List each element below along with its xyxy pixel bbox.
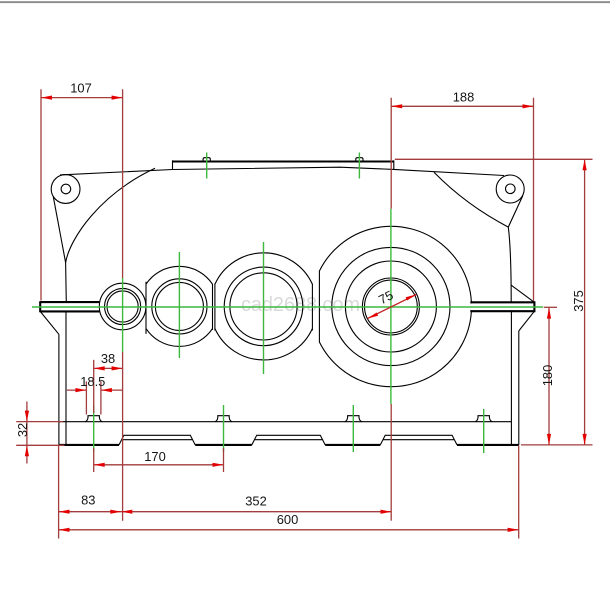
right shaft bar bbox=[470, 301, 534, 312]
dim 188 extension lines bbox=[391, 98, 533, 301]
bore2 outer circle bbox=[152, 279, 207, 334]
right gusset diagonal bbox=[508, 196, 523, 228]
foot recess 3 bbox=[380, 435, 457, 445]
right shaft lower chamfer bbox=[519, 311, 535, 331]
left ear lug circle bbox=[51, 175, 80, 204]
dim 18.5 line bbox=[67, 389, 123, 391]
bore4 vertical centerline bbox=[390, 209, 392, 404]
left wall above shaft bbox=[65, 263, 68, 303]
top boss screw bump right bbox=[356, 158, 363, 162]
dim 18.5 ext lines bbox=[86, 382, 101, 415]
dim 170 line bbox=[94, 464, 224, 466]
bolt boss pad 2 bbox=[215, 416, 232, 422]
svg-text:83: 83 bbox=[81, 493, 95, 508]
arrows 38 bbox=[94, 366, 105, 370]
foot recess 1 bbox=[119, 435, 195, 445]
bore1-bore2 tangent flat bbox=[145, 282, 147, 334]
arrows 18.5 bbox=[75, 388, 86, 392]
bolt boss pad 3 bbox=[345, 416, 362, 422]
right wall below shaft bbox=[510, 309, 512, 445]
bore4 outer circle bbox=[332, 247, 450, 365]
boss1 centerline bbox=[93, 405, 95, 452]
boss4 centerline bbox=[483, 409, 485, 453]
arrows 375 bbox=[583, 159, 587, 170]
bore3 boss right flat bbox=[311, 284, 313, 331]
svg-text:188: 188 bbox=[453, 90, 475, 105]
dim 375 line bbox=[584, 159, 586, 445]
arrows 32 bbox=[25, 411, 29, 422]
bore4 bore inner bbox=[365, 280, 418, 333]
base top line bbox=[59, 421, 512, 423]
svg-text:107: 107 bbox=[70, 81, 92, 96]
right wall above shaft bbox=[508, 227, 511, 302]
dim 352 right ext lower bbox=[390, 404, 392, 521]
dim 32 ext lines bbox=[16, 422, 64, 446]
arrows 107 bbox=[41, 96, 52, 100]
top boss right step bbox=[393, 160, 395, 169]
left ear hole bbox=[61, 184, 71, 194]
svg-text:38: 38 bbox=[101, 351, 115, 366]
dim 188 line bbox=[391, 105, 533, 107]
base bottom thick segments bbox=[59, 444, 519, 446]
right base outer wall bbox=[518, 331, 520, 445]
dim 38 right ext lower bbox=[122, 352, 124, 521]
bore4 bore ring bbox=[362, 278, 419, 335]
top bump2 centerline bbox=[358, 153, 360, 179]
top gray border bbox=[0, 1, 610, 3]
bore4 middle circle bbox=[345, 261, 436, 352]
arrows 75 bbox=[368, 313, 379, 319]
bore2 boss right flat bbox=[212, 284, 214, 330]
bore1 vertical centerline bbox=[122, 278, 124, 352]
right shaft white mask bbox=[471, 303, 534, 310]
dim 32 line bbox=[26, 402, 28, 464]
dim 107 extension lines bbox=[41, 89, 123, 300]
left shaft bar bbox=[40, 301, 99, 312]
svg-text:cad2688.com: cad2688.com bbox=[241, 294, 360, 316]
bore1 middle circle bbox=[105, 288, 141, 324]
bore3 boss arcs bbox=[215, 253, 313, 360]
left base outer diagonal bbox=[40, 311, 59, 334]
right gusset curve bbox=[434, 172, 508, 227]
foot recess 2 bbox=[252, 435, 325, 445]
bore2 vertical centerline bbox=[178, 252, 180, 358]
svg-text:170: 170 bbox=[144, 449, 166, 464]
right shaft upper chamfer bbox=[511, 285, 534, 302]
svg-text:375: 375 bbox=[571, 290, 586, 312]
dim 375 bottom ext bbox=[521, 444, 593, 446]
left shaft white mask bbox=[41, 303, 99, 310]
bore2 boss arcs bbox=[146, 266, 213, 346]
svg-text:180: 180 bbox=[540, 365, 555, 387]
top boss left step bbox=[172, 160, 174, 169]
svg-text:18.5: 18.5 bbox=[80, 374, 105, 389]
dim 83-352 line bbox=[59, 511, 392, 513]
housing top face line bbox=[60, 167, 504, 175]
svg-text:600: 600 bbox=[277, 512, 299, 527]
right ear hole bbox=[506, 184, 516, 194]
left gusset curve bbox=[66, 168, 155, 262]
bore4 boss left flat bbox=[318, 271, 320, 343]
dim 75 line bbox=[368, 295, 417, 319]
dim 38 line and left ext bbox=[94, 360, 123, 472]
dim 170 right ext bbox=[223, 448, 225, 472]
bore1 outer circle bbox=[99, 283, 146, 330]
dim 180 line bbox=[548, 308, 550, 445]
arrows 180 bbox=[547, 308, 551, 319]
top boss thick line bbox=[173, 160, 394, 162]
dim 600 line bbox=[59, 529, 519, 531]
bolt boss pad 1 bbox=[85, 416, 102, 422]
arrows 83 bbox=[59, 510, 70, 514]
bore3 outer circle bbox=[224, 267, 303, 346]
bore3 boss left flat bbox=[214, 284, 216, 331]
arrows 600 bbox=[59, 528, 70, 532]
dim 375 top ext bbox=[395, 158, 593, 160]
dim 600 right ext bbox=[518, 446, 520, 539]
dim 107 line bbox=[41, 97, 123, 99]
left gusset diagonal bbox=[53, 196, 65, 262]
top bump1 centerline bbox=[206, 153, 208, 179]
arrows 170 bbox=[94, 463, 105, 467]
right ear lug circle bbox=[496, 175, 524, 203]
main horizontal centerline bbox=[32, 306, 543, 308]
boss3 centerline bbox=[352, 405, 354, 452]
bore2 inner circle bbox=[155, 282, 203, 330]
arrows 352 bbox=[121, 510, 132, 514]
bore1 inner circle bbox=[107, 291, 138, 322]
left base outer wall bbox=[58, 334, 60, 445]
dim 600 left ext bbox=[58, 446, 60, 539]
top boss screw bump left bbox=[203, 158, 210, 162]
boss2 centerline bbox=[223, 405, 225, 452]
svg-text:352: 352 bbox=[245, 494, 267, 509]
arrows 188 bbox=[391, 104, 402, 108]
bore3 vertical centerline bbox=[263, 242, 265, 374]
dim 180 top ext bbox=[544, 306, 557, 308]
bore3 inner circle bbox=[230, 273, 297, 340]
bore4 boss arc bbox=[319, 226, 471, 386]
bolt boss pad 4 bbox=[475, 416, 492, 422]
left wall below shaft bbox=[65, 311, 67, 445]
svg-text:32: 32 bbox=[15, 423, 30, 437]
